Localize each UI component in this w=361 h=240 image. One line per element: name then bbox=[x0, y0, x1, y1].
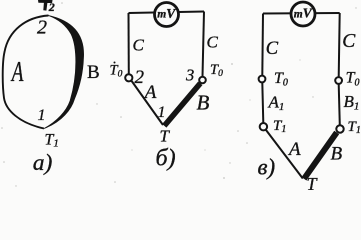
svg-text:A: A bbox=[10, 56, 24, 88]
wire A1 (left vertical, diagram v) bbox=[262, 83, 263, 124]
wire (left vertical C, diagram b) bbox=[128, 13, 130, 74]
scan noise speckles (decorative) bbox=[1, 2, 356, 187]
svg-text:T: T bbox=[160, 127, 171, 146]
wire (right vertical C, diagram b) bbox=[203, 12, 205, 77]
wire (top horizontal, diagram b) bbox=[129, 12, 205, 14]
millivoltmeter U1 mV (diagram b) bbox=[155, 3, 179, 27]
svg-text:mV: mV bbox=[157, 6, 176, 21]
wire B (thick thermoelectrode, diagram b) bbox=[164, 83, 200, 126]
svg-text:A: A bbox=[143, 82, 157, 103]
svg-text:B: B bbox=[331, 144, 343, 165]
svg-text:б): б) bbox=[156, 146, 176, 172]
svg-text:B: B bbox=[197, 91, 210, 115]
svg-text:A: A bbox=[287, 139, 301, 160]
wire (right vertical C, diagram v) bbox=[339, 13, 340, 77]
node T2 (hot junction label, diagram a) bbox=[38, 0, 53, 11]
wire A (thin thermoelectrode, diagram v) bbox=[266, 130, 303, 179]
wire B1 (right vertical, diagram v) bbox=[339, 84, 340, 125]
svg-text:в): в) bbox=[258, 155, 276, 180]
svg-text:2: 2 bbox=[135, 67, 145, 88]
terminal T0 (left circle, diagram v) bbox=[259, 76, 266, 83]
svg-text:2: 2 bbox=[48, 0, 55, 14]
svg-text:C: C bbox=[133, 36, 145, 55]
wire A (thin thermoelectrode, diagram b) bbox=[131, 81, 163, 126]
wire (top horizontal, diagram v) bbox=[263, 12, 340, 15]
terminal T1 (left circle, diagram v) bbox=[260, 123, 267, 130]
millivoltmeter U2 mV (diagram v) bbox=[291, 2, 315, 26]
terminal 3 (right circle, diagram b) bbox=[199, 77, 206, 84]
svg-text:C: C bbox=[266, 39, 279, 59]
svg-text:mV: mV bbox=[294, 6, 313, 21]
svg-text:3: 3 bbox=[185, 66, 194, 85]
wire A (thermoelectrode A, thin left arc, diagram a) bbox=[3, 16, 49, 129]
svg-text:C: C bbox=[207, 33, 219, 52]
svg-text:2: 2 bbox=[37, 17, 47, 39]
svg-text:а): а) bbox=[33, 150, 53, 176]
terminal T1 (right circle, diagram v) bbox=[336, 125, 343, 132]
terminal 2 (left circle, diagram b) bbox=[125, 74, 132, 81]
wire (left vertical C, diagram v) bbox=[261, 14, 264, 76]
svg-text:1: 1 bbox=[158, 104, 166, 121]
svg-text:B: B bbox=[87, 62, 100, 83]
terminal T0 (right circle, diagram v) bbox=[335, 77, 342, 84]
wire B (thermoelectrode B, thick right arc, diagram a) bbox=[44, 16, 84, 129]
svg-text:C: C bbox=[342, 31, 356, 52]
wire B (thick thermoelectrode, diagram v) bbox=[304, 133, 337, 179]
svg-text:1: 1 bbox=[38, 107, 46, 124]
